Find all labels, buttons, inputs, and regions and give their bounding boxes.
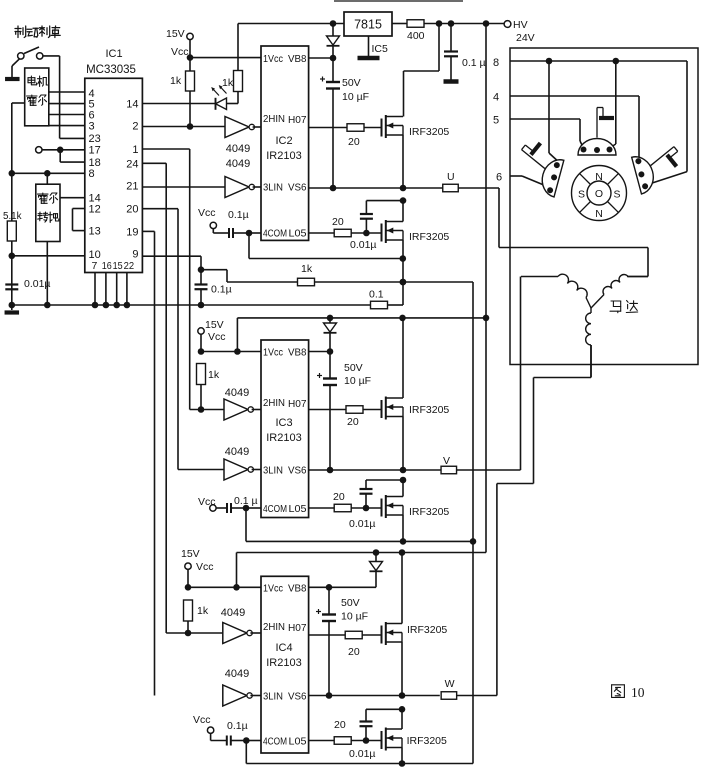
wire motor pin 6 xyxy=(510,176,551,188)
left vertical rail xyxy=(11,103,13,305)
label IC5 xyxy=(372,43,389,55)
resistor 400 xyxy=(392,20,425,42)
IC1 pin 12-13 jumper xyxy=(73,209,85,231)
inverter 4049 W low xyxy=(223,668,261,706)
motor enclosure box xyxy=(510,48,698,365)
wire V low source down xyxy=(400,515,407,545)
motor pin 6 label xyxy=(496,172,502,184)
wire 24V distribution vertical xyxy=(483,24,490,553)
wire to inverter W high xyxy=(166,632,223,634)
svg-text:Vcc: Vcc xyxy=(171,46,189,58)
svg-text:2HIN: 2HIN xyxy=(263,397,285,409)
svg-text:3: 3 xyxy=(89,120,95,132)
scan artifact top edge line xyxy=(334,0,463,2)
svg-text:15V: 15V xyxy=(205,319,224,331)
svg-text:4COM: 4COM xyxy=(263,228,287,240)
motor pin 4 label xyxy=(493,92,499,104)
svg-text:Vcc: Vcc xyxy=(196,561,214,573)
svg-text:L05: L05 xyxy=(289,736,307,748)
svg-text:9: 9 xyxy=(132,248,138,260)
svg-text:24V: 24V xyxy=(516,32,535,44)
wire IC1 pin 9 to filter xyxy=(142,256,204,273)
wire hall box to IC1 pin 5 xyxy=(49,103,85,105)
terminal Vcc U com xyxy=(198,207,217,229)
hall sensor top xyxy=(578,108,616,156)
svg-text:20: 20 xyxy=(333,491,345,503)
capacitor 10uF 50V W xyxy=(316,587,368,695)
wire switch to IC1 pin 23 xyxy=(43,56,85,138)
capacitor 0.1u U com xyxy=(213,209,261,238)
svg-text:1k: 1k xyxy=(197,605,209,617)
svg-text:VB8: VB8 xyxy=(288,583,307,595)
wire throttle bottom to ground bus xyxy=(46,242,48,306)
IC4 IR2103 xyxy=(261,576,309,753)
resistor 1k sense xyxy=(201,263,473,286)
wire U high source to VS xyxy=(400,135,407,191)
resistor link W output xyxy=(441,678,457,699)
wire VS6 U xyxy=(309,185,443,192)
label figure 10 xyxy=(612,685,645,700)
resistor 1k V xyxy=(197,364,220,413)
label motor (mada) xyxy=(610,301,638,313)
svg-text:7: 7 xyxy=(92,260,98,272)
svg-text:0.1 µ: 0.1 µ xyxy=(462,57,486,69)
svg-text:Vcc: Vcc xyxy=(193,714,211,726)
wire W phase to motor xyxy=(457,345,591,696)
box motor hall sensors (dianji huoer) xyxy=(25,68,49,126)
svg-text:0.1µ: 0.1µ xyxy=(211,284,232,296)
inverter 4049 W high xyxy=(221,607,261,644)
wire pin17 pin18 tie xyxy=(42,147,85,163)
svg-text:20: 20 xyxy=(332,216,344,228)
capacitor 0.01u U xyxy=(350,197,406,251)
wire IC1 pin2 to inverter U xyxy=(142,123,225,130)
svg-text:4049: 4049 xyxy=(225,446,249,458)
svg-text:IC1: IC1 xyxy=(105,48,122,60)
ground of 7815 xyxy=(358,36,380,58)
svg-text:8: 8 xyxy=(89,168,95,180)
wire W low drain xyxy=(401,709,403,729)
wire U phase to motor xyxy=(458,188,648,277)
svg-text:Vcc: Vcc xyxy=(208,331,226,343)
svg-text:4COM: 4COM xyxy=(263,736,287,748)
svg-text:H07: H07 xyxy=(288,398,307,410)
svg-text:1Vcc: 1Vcc xyxy=(263,583,283,595)
wire IC1 pin 20 to V 3LIN xyxy=(142,209,178,470)
IC3 IR2103 xyxy=(261,340,309,518)
wire LO5 U xyxy=(309,232,334,234)
svg-text:O: O xyxy=(595,188,603,200)
svg-text:4: 4 xyxy=(493,92,499,104)
wire hall tap B xyxy=(610,61,616,148)
svg-text:22: 22 xyxy=(124,260,135,272)
IC1 right pin numbers xyxy=(126,99,138,261)
wire V high drain to 24V xyxy=(402,318,404,398)
svg-text:0.1µ: 0.1µ xyxy=(227,720,248,732)
capacitor 10uF 50V U xyxy=(320,58,369,188)
wire sense to lower phases vertical xyxy=(470,282,477,764)
wire HO7 V xyxy=(309,409,346,411)
svg-text:12: 12 xyxy=(89,204,101,216)
svg-text:5: 5 xyxy=(493,115,499,127)
IC1 left pin numbers xyxy=(89,88,101,261)
mosfet IRF3205 W low xyxy=(382,728,448,751)
motor winding left coil xyxy=(521,274,591,308)
svg-text:IRF3205: IRF3205 xyxy=(407,735,447,747)
terminal HV 24V xyxy=(504,19,535,44)
svg-text:4049: 4049 xyxy=(226,143,250,155)
wire U low source to sense xyxy=(400,240,407,305)
motor winding right coil xyxy=(591,275,648,308)
rotor magnet xyxy=(572,166,627,221)
terminal at IC1 pin 17 xyxy=(36,147,42,153)
svg-text:10 µF: 10 µF xyxy=(342,91,369,103)
wire IC1 pin 1 to V 2HIN xyxy=(142,149,189,410)
svg-text:S: S xyxy=(613,189,620,201)
wire HO7 W xyxy=(309,634,346,636)
mosfet IRF3205 V high xyxy=(382,397,450,420)
capacitor 0.01u left xyxy=(5,278,50,290)
IC1 MC33035 xyxy=(85,48,143,273)
svg-text:VS6: VS6 xyxy=(288,182,307,194)
svg-text:H07: H07 xyxy=(288,114,307,126)
svg-text:VS6: VS6 xyxy=(288,465,307,477)
svg-text:1k: 1k xyxy=(170,75,182,87)
svg-text:0.01µ: 0.01µ xyxy=(349,748,376,760)
wire LO5 W xyxy=(309,740,334,742)
svg-text:IRF3205: IRF3205 xyxy=(407,624,447,636)
svg-text:2HIN: 2HIN xyxy=(263,113,285,125)
resistor 20 W high xyxy=(345,631,381,658)
wire LO5 V xyxy=(309,507,334,509)
wire W com return xyxy=(246,741,473,764)
terminal 15V Vcc phase V xyxy=(198,319,226,343)
wire hall box to IC1 pin 3 xyxy=(49,125,85,127)
svg-text:IRF3205: IRF3205 xyxy=(409,126,449,138)
resistor 20 U low xyxy=(332,216,382,237)
svg-text:S: S xyxy=(578,189,585,201)
svg-text:IRF3205: IRF3205 xyxy=(409,506,449,518)
terminal 15V Vcc phase U xyxy=(166,28,193,58)
inverter 4049 V high xyxy=(224,387,261,420)
svg-text:4049: 4049 xyxy=(225,668,249,680)
terminal 15V Vcc phase W xyxy=(181,548,214,573)
wire Vcc node U xyxy=(187,40,261,61)
svg-text:13: 13 xyxy=(89,226,101,238)
wire Vcc node V xyxy=(198,334,261,354)
terminal Vcc W com xyxy=(193,714,214,733)
capacitor 0.01u W xyxy=(349,706,405,760)
wire HO7 U xyxy=(309,127,347,129)
resistor 0.1 shunt xyxy=(369,289,403,309)
svg-text:17: 17 xyxy=(89,145,101,157)
svg-text:Vcc: Vcc xyxy=(198,496,216,508)
wire VS6 V xyxy=(309,467,441,474)
wire hall box to IC1 pin 6 xyxy=(49,114,85,116)
ground bus bottom left xyxy=(9,302,371,309)
LED indicator xyxy=(142,85,238,110)
svg-text:0.1: 0.1 xyxy=(369,289,384,301)
mosfet IRF3205 U low xyxy=(382,220,450,243)
svg-text:20: 20 xyxy=(348,646,360,658)
svg-text:MC33035: MC33035 xyxy=(86,64,136,76)
box hall throttle (huoer zhuanba) xyxy=(36,184,60,241)
resistor 1k U led xyxy=(222,24,243,92)
svg-text:IC5: IC5 xyxy=(372,43,389,55)
svg-text:3LIN: 3LIN xyxy=(263,465,283,477)
svg-text:20: 20 xyxy=(347,416,359,428)
wire hall box supply to left rail xyxy=(12,102,25,104)
svg-text:2HIN: 2HIN xyxy=(263,621,285,633)
svg-text:IC4: IC4 xyxy=(275,642,292,654)
svg-text:8: 8 xyxy=(493,57,499,69)
resistor 20 W low xyxy=(334,719,382,744)
svg-text:50V: 50V xyxy=(341,597,360,609)
wire V high source to VS xyxy=(400,417,407,474)
wire motor pin 8 xyxy=(510,58,687,186)
svg-text:L05: L05 xyxy=(289,503,307,515)
wire throttle to IC1 pin 14 xyxy=(60,197,85,199)
svg-text:IR2103: IR2103 xyxy=(266,432,301,444)
inverter 4049 V low xyxy=(178,446,261,480)
diode bootstrap W xyxy=(370,553,383,588)
wire V low drain xyxy=(402,480,404,497)
svg-text:IC3: IC3 xyxy=(275,417,292,429)
diode bootstrap V xyxy=(324,318,337,352)
inverter 4049 U high xyxy=(225,117,261,156)
svg-text:N: N xyxy=(595,171,603,183)
svg-text:0.1µ: 0.1µ xyxy=(228,209,249,221)
svg-text:15V: 15V xyxy=(166,28,185,40)
wire VB8 V xyxy=(309,348,334,355)
svg-text:23: 23 xyxy=(89,133,101,145)
svg-text:15: 15 xyxy=(113,260,123,272)
svg-text:6: 6 xyxy=(496,172,502,184)
svg-text:15V: 15V xyxy=(181,548,200,560)
wire HV to U high drain xyxy=(404,24,440,117)
wire IC1 pin 8 line xyxy=(9,170,85,177)
svg-text:0.01µ: 0.01µ xyxy=(24,278,51,290)
svg-text:50V: 50V xyxy=(342,77,361,89)
hall sensor right xyxy=(632,144,691,194)
resistor 20 U high xyxy=(347,124,382,148)
ground symbol bottom left xyxy=(5,305,19,313)
svg-text:HV: HV xyxy=(513,19,528,31)
hall sensor left xyxy=(512,135,568,197)
wire IC1 pin 10 line xyxy=(9,253,85,260)
resistor 1k U bias xyxy=(170,58,195,127)
mosfet IRF3205 V low xyxy=(382,495,450,518)
wire motor pin 5 xyxy=(510,119,583,147)
wire W high drain to 24V xyxy=(401,553,403,624)
svg-text:IR2103: IR2103 xyxy=(266,150,301,162)
resistor 5.1k xyxy=(3,211,22,241)
wire W high source to VS xyxy=(399,642,406,699)
svg-text:21: 21 xyxy=(126,181,138,193)
svg-text:1Vcc: 1Vcc xyxy=(263,347,283,359)
svg-text:10 µF: 10 µF xyxy=(344,375,371,387)
svg-text:3LIN: 3LIN xyxy=(263,691,283,703)
wire VS6 W xyxy=(309,692,440,699)
wire U low drain xyxy=(402,201,404,222)
svg-text:20: 20 xyxy=(348,136,360,148)
resistor link U output xyxy=(443,171,459,192)
IC1 bottom pin numbers 7 16 15 22 xyxy=(92,260,135,272)
svg-text:10 µF: 10 µF xyxy=(341,611,368,623)
ground of 0.1u cap xyxy=(444,79,459,84)
svg-text:0.01µ: 0.01µ xyxy=(350,239,377,251)
svg-text:1k: 1k xyxy=(208,369,220,381)
wire HV rail xyxy=(424,20,504,27)
mosfet IRF3205 W high xyxy=(382,622,448,645)
ground for brake switch xyxy=(5,77,19,81)
terminal Vcc V com xyxy=(198,496,216,511)
wire IC1 pin 24 to W 2HIN xyxy=(142,163,166,633)
wire VB8 W xyxy=(309,584,376,591)
svg-text:1k: 1k xyxy=(222,77,234,89)
svg-text:IRF3205: IRF3205 xyxy=(409,231,449,243)
wire IC1 pin 19 to W 3LIN xyxy=(142,231,154,695)
wire Vcc node W xyxy=(185,570,261,591)
svg-text:1Vcc: 1Vcc xyxy=(263,53,283,65)
svg-text:20: 20 xyxy=(126,204,138,216)
svg-text:IRF3205: IRF3205 xyxy=(409,404,449,416)
svg-text:VB8: VB8 xyxy=(288,53,307,65)
svg-text:U: U xyxy=(447,171,455,183)
capacitor 0.1u sense xyxy=(195,270,232,309)
svg-text:1: 1 xyxy=(132,144,138,156)
wire switch to ground xyxy=(12,59,20,77)
wire U com return xyxy=(249,233,406,262)
svg-text:16: 16 xyxy=(102,260,112,272)
mosfet IRF3205 U high xyxy=(382,115,450,138)
svg-text:50V: 50V xyxy=(344,362,363,374)
wire VB8 U xyxy=(309,55,337,62)
svg-text:10: 10 xyxy=(631,685,645,700)
wire hall tap A xyxy=(549,61,562,165)
svg-text:20: 20 xyxy=(334,719,346,731)
wire W low source down xyxy=(399,748,406,767)
switch S1 brake xyxy=(18,47,43,59)
svg-text:4049: 4049 xyxy=(225,387,249,399)
motor pin 5 label xyxy=(493,115,499,127)
svg-text:4049: 4049 xyxy=(226,158,250,170)
regulator 7815 xyxy=(344,12,392,36)
wire 15V rail phase V xyxy=(237,315,486,352)
svg-text:VS6: VS6 xyxy=(288,691,307,703)
svg-text:5.1k: 5.1k xyxy=(3,211,22,222)
capacitor 0.1u W com xyxy=(211,720,261,746)
diode bootstrap U xyxy=(327,24,340,59)
wire 15V rail phase W xyxy=(237,549,487,587)
IC1 bottom ground stubs pins 7 16 15 22 xyxy=(92,273,131,309)
svg-text:H07: H07 xyxy=(288,622,307,634)
resistor 20 V high xyxy=(346,406,382,428)
capacitor 10uF 50V V xyxy=(317,352,371,471)
capacitor 0.1u at 7815 output xyxy=(444,24,486,81)
wire 15V rail phase U xyxy=(238,20,344,27)
capacitor 0.01u V xyxy=(349,477,406,530)
svg-text:19: 19 xyxy=(126,226,138,238)
capacitor 0.1u V com xyxy=(216,495,261,513)
svg-text:W: W xyxy=(445,678,455,690)
svg-text:3LIN: 3LIN xyxy=(263,182,283,194)
svg-text:N: N xyxy=(595,208,603,220)
svg-text:14: 14 xyxy=(126,99,138,111)
svg-text:0.01µ: 0.01µ xyxy=(349,518,376,530)
wire V phase to motor xyxy=(457,277,521,471)
resistor 1k W xyxy=(184,600,209,636)
svg-text:4COM: 4COM xyxy=(263,503,287,515)
IC2 IR2103 xyxy=(261,46,309,240)
svg-text:IR2103: IR2103 xyxy=(266,657,301,669)
label brake (zhidong shache) xyxy=(15,26,60,38)
svg-text:L05: L05 xyxy=(289,228,307,240)
svg-text:400: 400 xyxy=(407,30,425,42)
wire throttle top to pin8 line xyxy=(46,173,48,184)
svg-text:7815: 7815 xyxy=(354,18,382,32)
svg-text:Vcc: Vcc xyxy=(198,207,216,219)
svg-text:IC2: IC2 xyxy=(275,135,292,147)
resistor link V output xyxy=(441,455,457,474)
wire motor pin 4 xyxy=(510,96,639,164)
inverter 4049 U low xyxy=(142,158,261,198)
motor winding center coil xyxy=(586,308,591,378)
wire V com return xyxy=(246,508,473,541)
svg-text:VB8: VB8 xyxy=(288,347,307,359)
svg-text:0.1 µ: 0.1 µ xyxy=(234,495,258,507)
svg-text:4049: 4049 xyxy=(221,607,245,619)
wire hall box to IC1 pin 4 xyxy=(49,91,85,93)
motor pin 8 label xyxy=(493,57,499,69)
svg-text:24: 24 xyxy=(126,158,138,170)
svg-text:2: 2 xyxy=(132,121,138,133)
svg-text:V: V xyxy=(443,455,450,467)
resistor 20 V low xyxy=(333,491,382,512)
wire to inverter V high xyxy=(190,409,224,411)
svg-text:1k: 1k xyxy=(301,263,313,275)
